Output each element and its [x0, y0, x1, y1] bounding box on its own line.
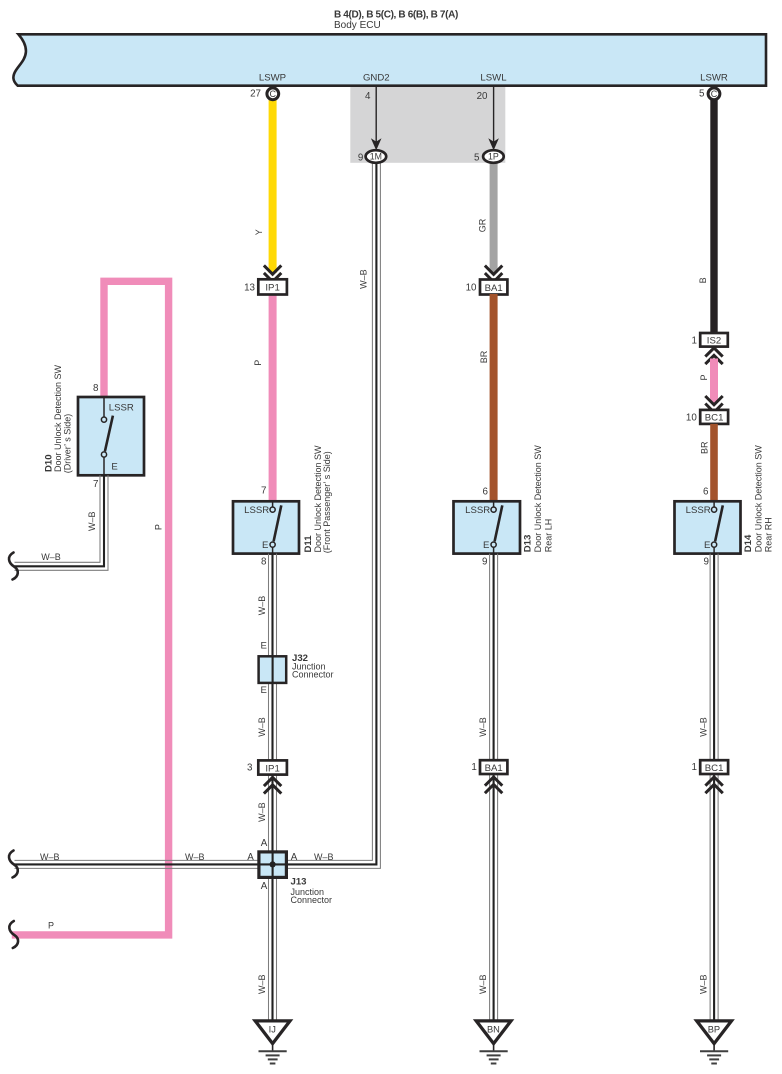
Body ECU box	[13, 34, 766, 85]
wire label Y	[254, 229, 264, 235]
component label D10	[43, 364, 72, 473]
wire brown BR from BC1 to D14	[710, 424, 718, 502]
svg-text:20: 20	[477, 91, 488, 102]
svg-text:(Front Passenger’ s Side): (Front Passenger’ s Side)	[322, 451, 332, 553]
connector IP1 pin 3	[247, 760, 287, 774]
svg-text:D14: D14	[743, 534, 754, 552]
chevron arrows up out of BA1 pin 1	[485, 777, 502, 793]
svg-text:BA1: BA1	[485, 283, 503, 294]
svg-text:A: A	[261, 838, 268, 849]
svg-text:W–B: W–B	[185, 852, 205, 862]
pin name LSWR	[700, 72, 728, 83]
svg-text:13: 13	[244, 283, 255, 294]
svg-text:W–B: W–B	[257, 974, 267, 994]
break symbol on D10 W-B wire	[9, 553, 18, 580]
connector IS2 pin 1	[692, 333, 728, 347]
wire gray GR from 1P	[490, 158, 498, 273]
svg-text:E: E	[483, 540, 489, 551]
terminal LSWR pin 5 connector C	[699, 88, 720, 100]
svg-text:9: 9	[704, 557, 709, 568]
wire label W-B (right of J13)	[314, 852, 334, 862]
wire yellow Y from LSWP	[269, 100, 277, 273]
svg-text:GND2: GND2	[363, 72, 390, 83]
svg-text:C: C	[270, 89, 277, 99]
wire label W-B (D13 to BA1)	[478, 717, 488, 737]
svg-text:8: 8	[261, 557, 267, 568]
wire label W-B (far left of J13)	[40, 852, 60, 862]
connector IP1 pin 13	[244, 279, 287, 294]
wire black B from LSWR	[710, 100, 717, 334]
svg-text:10: 10	[466, 283, 477, 294]
svg-text:BR: BR	[479, 350, 489, 363]
wire label W-B (left of J13)	[185, 852, 205, 862]
node A above J13	[261, 838, 268, 849]
svg-text:3: 3	[247, 762, 253, 773]
svg-text:E: E	[260, 685, 266, 696]
wire pink P from IP1 to D11	[269, 294, 277, 502]
svg-text:8: 8	[93, 383, 99, 394]
svg-text:E: E	[260, 640, 266, 651]
svg-text:27: 27	[250, 88, 261, 99]
wire label W-B (J32 to IP1)	[257, 717, 267, 737]
svg-text:W–B: W–B	[41, 552, 61, 562]
chevron arrows up into IS2	[705, 348, 722, 364]
component label D14	[743, 445, 774, 553]
svg-text:Door Unlock Detection SW: Door Unlock Detection SW	[533, 445, 543, 553]
svg-text:W–B: W–B	[257, 717, 267, 737]
component label D11	[303, 445, 332, 553]
svg-text:W–B: W–B	[257, 802, 267, 822]
svg-text:7: 7	[261, 486, 266, 497]
chevron arrows down into BC1 pin 10	[705, 396, 722, 412]
svg-text:IP1: IP1	[265, 763, 279, 774]
svg-text:BN: BN	[487, 1025, 500, 1035]
svg-text:1P: 1P	[488, 152, 499, 162]
wire label BR (BA1 to D13)	[479, 350, 489, 363]
svg-text:IS2: IS2	[707, 336, 721, 347]
svg-text:Y: Y	[254, 229, 264, 235]
pin name LSWL	[480, 72, 507, 83]
svg-text:GR: GR	[477, 218, 487, 232]
svg-text:E: E	[111, 462, 117, 473]
svg-text:C: C	[711, 89, 718, 99]
wire label W-B (IP1 to J13)	[257, 802, 267, 822]
node A right of J13	[291, 852, 298, 863]
svg-text:4: 4	[365, 91, 371, 102]
ground BN	[476, 1021, 511, 1064]
wire label P (IP1 to D11)	[253, 360, 263, 366]
wire label W-B (D10 horizontal)	[41, 552, 61, 562]
junction 1P pin 5	[474, 150, 504, 163]
svg-text:LSSR: LSSR	[686, 505, 711, 516]
svg-text:1M: 1M	[370, 152, 382, 162]
wire label W-B (D11 to J32)	[257, 596, 267, 616]
component label D13	[523, 445, 554, 553]
svg-text:5: 5	[474, 152, 480, 163]
connector BC1 pin 1	[692, 760, 729, 774]
junction 1M pin 9	[358, 150, 386, 163]
svg-text:A: A	[291, 852, 298, 863]
terminal LSWP pin 27 connector C	[250, 88, 279, 100]
svg-text:9: 9	[482, 557, 487, 568]
svg-text:Door Unlock Detection SW: Door Unlock Detection SW	[754, 445, 764, 553]
wire W-B from 1M down and left to J13	[287, 158, 380, 868]
svg-text:E: E	[262, 540, 268, 551]
ground BP	[697, 1021, 732, 1064]
svg-text:1: 1	[692, 335, 697, 346]
svg-text:Rear LH: Rear LH	[543, 519, 553, 553]
svg-text:W–B: W–B	[478, 717, 488, 737]
chevron arrows into BA1 pin 10	[485, 266, 502, 282]
break symbol on pink wire	[9, 921, 18, 948]
svg-text:LSSR: LSSR	[109, 403, 134, 414]
switch D13 Door Unlock Detection SW Rear LH	[454, 487, 521, 568]
switch D10 Door Unlock Detection SW (Driver's Side)	[78, 383, 144, 490]
gray shield box between GND2 and LSWL connectors	[350, 87, 505, 163]
wire W-B from left break to J13	[15, 860, 259, 868]
wire label P (IS2 to BC1)	[699, 374, 709, 380]
svg-text:W–B: W–B	[698, 974, 708, 994]
connector BA1 pin 1	[471, 760, 507, 774]
wire label W-B (1M branch)	[358, 269, 368, 289]
wire W-B from D13 pin 9 to ground BN	[490, 554, 498, 1020]
svg-text:10: 10	[686, 413, 697, 424]
switch D14 Door Unlock Detection SW Rear RH	[675, 487, 741, 568]
chevron arrows into IP1 pin 13	[264, 265, 281, 281]
svg-text:W–B: W–B	[698, 717, 708, 737]
wire label W-B (D10 vertical)	[87, 511, 97, 531]
wire label W-B (BA1 to BN)	[478, 974, 488, 994]
component label J13	[291, 876, 333, 905]
wire W-B from D14 pin 9 to ground BP	[710, 554, 718, 1020]
svg-text:9: 9	[358, 152, 363, 163]
node A below J13	[261, 881, 268, 892]
svg-text:W–B: W–B	[358, 269, 368, 289]
svg-text:P: P	[154, 524, 164, 530]
wire brown BR from BA1 to D13	[490, 294, 498, 502]
svg-text:1: 1	[692, 762, 697, 773]
Body ECU header label	[334, 10, 458, 31]
svg-text:W–B: W–B	[87, 511, 97, 531]
wire W-B from D10 pin 7 to left break	[15, 475, 109, 570]
svg-text:Connector: Connector	[292, 670, 334, 680]
svg-text:LSSR: LSSR	[465, 505, 490, 516]
wire label B	[698, 277, 708, 283]
svg-text:7: 7	[93, 479, 98, 490]
svg-text:BR: BR	[699, 441, 709, 454]
svg-text:IJ: IJ	[269, 1025, 276, 1035]
break symbol on left W-B wire	[9, 851, 18, 878]
svg-text:A: A	[261, 881, 268, 892]
svg-text:LSWL: LSWL	[480, 72, 507, 83]
svg-text:W–B: W–B	[314, 852, 334, 862]
wire label BR (BC1 to D14)	[699, 441, 709, 454]
chevron arrows up out of IP1 pin 3	[264, 777, 281, 793]
switch D11 Door Unlock Detection SW (Front Passenger's Side)	[233, 486, 299, 568]
ground IJ	[255, 1021, 290, 1064]
wire label P (long pink vertical)	[154, 524, 164, 530]
wire label W-B (J13 to ground IJ)	[257, 974, 267, 994]
pin name GND2	[363, 72, 390, 83]
wire pink P between IS2 and BC1	[710, 359, 718, 404]
svg-text:D13: D13	[523, 535, 534, 553]
svg-text:Rear RH: Rear RH	[764, 517, 774, 552]
svg-text:BP: BP	[708, 1025, 720, 1035]
svg-text:W–B: W–B	[257, 596, 267, 616]
svg-text:P: P	[699, 374, 709, 380]
svg-text:W–B: W–B	[478, 974, 488, 994]
svg-text:LSWP: LSWP	[259, 72, 286, 83]
terminal GND2 pin 4 lead with arrow into junction 1M	[365, 87, 381, 150]
wire pink P loop from D10 to bottom-left break	[12, 281, 169, 935]
component label J32	[292, 653, 334, 679]
wire label P (bottom pink horizontal)	[48, 921, 54, 931]
svg-text:Connector: Connector	[291, 895, 333, 905]
wire label W-B (D14 to BC1)	[698, 717, 708, 737]
svg-text:BC1: BC1	[705, 763, 724, 774]
junction connector J32	[259, 640, 287, 696]
svg-text:E: E	[704, 540, 710, 551]
svg-text:B: B	[698, 277, 708, 283]
svg-text:5: 5	[699, 88, 705, 99]
wire label GR	[477, 218, 487, 232]
chevron arrows up out of BC1 pin 1	[705, 777, 722, 793]
svg-text:Body ECU: Body ECU	[334, 20, 381, 31]
terminal LSWL pin 20 lead with arrow into junction 1P	[477, 87, 499, 150]
svg-text:BC1: BC1	[705, 413, 724, 424]
svg-text:P: P	[48, 921, 54, 931]
svg-text:6: 6	[703, 487, 709, 498]
svg-text:LSSR: LSSR	[244, 505, 269, 516]
svg-text:(Driver’ s Side): (Driver’ s Side)	[62, 414, 72, 474]
connector BC1 pin 10	[686, 410, 728, 424]
svg-text:1: 1	[471, 762, 476, 773]
svg-text:6: 6	[483, 487, 489, 498]
wire label W-B (BC1 to BP)	[698, 974, 708, 994]
svg-text:J13: J13	[291, 876, 307, 887]
svg-text:IP1: IP1	[265, 283, 279, 294]
wire W-B from D11 pin 8 to ground IJ	[269, 554, 277, 1020]
pin name LSWP	[259, 72, 286, 83]
svg-text:A: A	[247, 852, 254, 863]
junction connector J13	[259, 852, 287, 878]
svg-text:LSWR: LSWR	[700, 72, 728, 83]
connector BA1 pin 10	[466, 280, 508, 295]
svg-text:W–B: W–B	[40, 852, 60, 862]
node A left of J13	[247, 852, 254, 863]
svg-text:BA1: BA1	[485, 763, 503, 774]
svg-text:P: P	[253, 360, 263, 366]
